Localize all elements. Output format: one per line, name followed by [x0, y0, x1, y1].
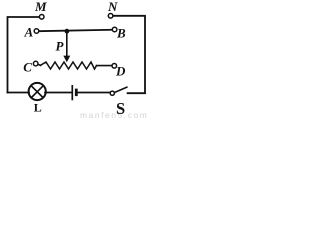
svg-text:P: P	[56, 38, 65, 53]
svg-text:D: D	[115, 64, 126, 79]
svg-text:B: B	[116, 26, 126, 41]
svg-text:L: L	[34, 100, 42, 114]
svg-text:N: N	[107, 0, 118, 14]
svg-text:S: S	[116, 99, 125, 118]
svg-text:manfen5.com: manfen5.com	[80, 110, 148, 120]
svg-text:A: A	[24, 25, 34, 40]
svg-text:C: C	[23, 59, 32, 74]
svg-text:M: M	[34, 0, 47, 14]
